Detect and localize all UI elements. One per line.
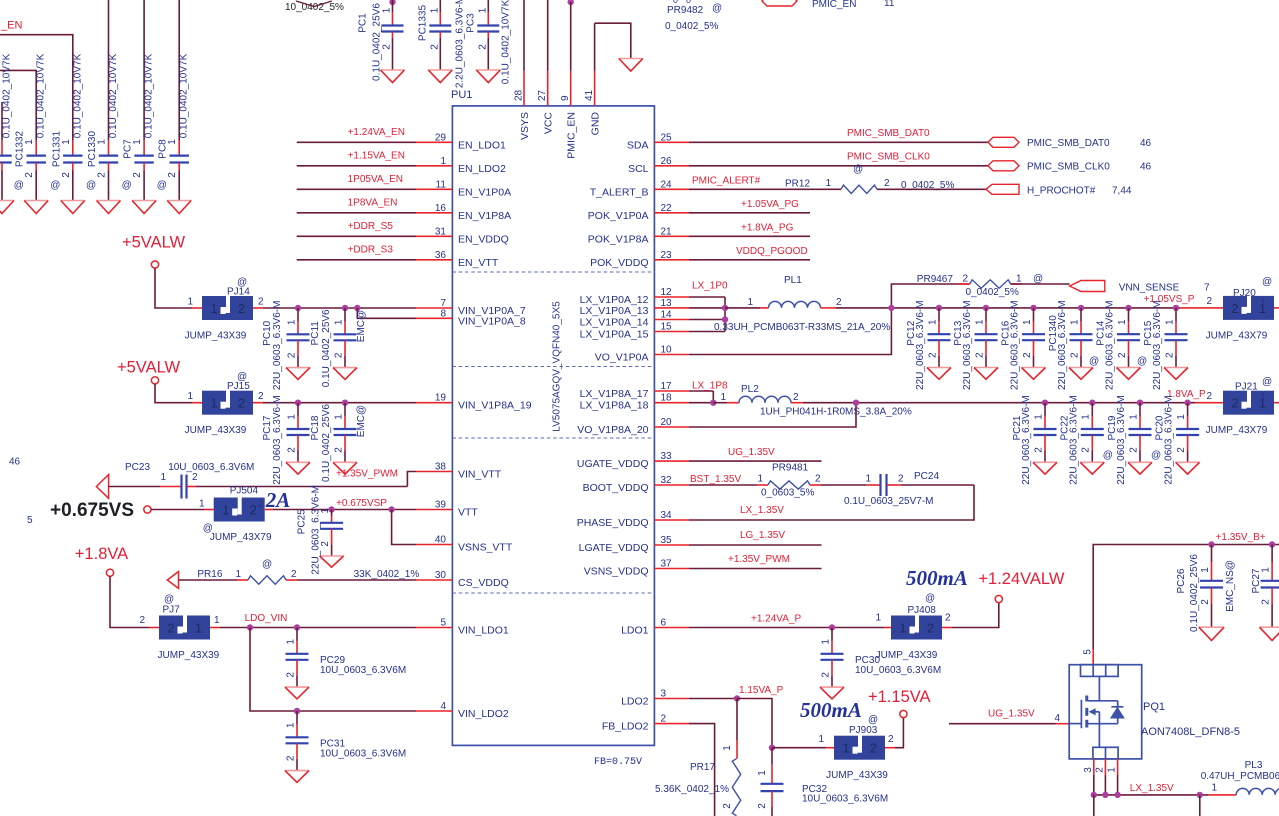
wire net UG_1.35V [689, 447, 822, 461]
jumper PJ408 pin labels [875, 613, 951, 624]
svg-text:PHASE_VDDQ: PHASE_VDDQ [577, 517, 649, 529]
svg-text:VTT: VTT [458, 507, 478, 519]
svg-text:22U_0603_6.3V6-M: 22U_0603_6.3V6-M [1164, 395, 1175, 485]
jumper PJ14 [185, 277, 253, 342]
svg-text:22: 22 [661, 203, 673, 214]
wire to PC1330 [108, 0, 110, 141]
svg-text:VIN_V1P0A_8: VIN_V1P0A_8 [458, 315, 526, 327]
svg-text:LDO_VIN: LDO_VIN [245, 613, 288, 624]
svg-text:1: 1 [974, 319, 985, 325]
svg-text:PMIC_SMB_CLK0: PMIC_SMB_CLK0 [847, 152, 930, 163]
svg-text:PC26: PC26 [1176, 568, 1187, 593]
terminal +1.8VA [106, 569, 113, 576]
wire to PJ504 [151, 509, 214, 511]
svg-text:2: 2 [1260, 599, 1271, 605]
capacitor PC8 [157, 53, 192, 213]
svg-text:PC23: PC23 [125, 462, 150, 473]
svg-text:2: 2 [820, 672, 831, 678]
svg-text:2: 2 [1117, 352, 1128, 358]
svg-text:2A: 2A [265, 488, 291, 512]
svg-text:VSNS_VTT: VSNS_VTT [458, 542, 513, 554]
svg-text:@: @ [237, 277, 247, 288]
wire to PC1332 [0, 70, 36, 140]
pin EN_VDDQ 31 [416, 226, 509, 245]
svg-text:1: 1 [97, 139, 108, 145]
svg-text:7: 7 [1204, 283, 1210, 294]
svg-text:2: 2 [192, 472, 198, 483]
svg-text:1: 1 [1211, 783, 1217, 794]
svg-text:+1.05VA_PG: +1.05VA_PG [741, 199, 799, 210]
svg-text:2: 2 [962, 274, 968, 285]
svg-text:25: 25 [661, 132, 673, 143]
svg-text:LGATE_VDDQ: LGATE_VDDQ [579, 542, 649, 554]
svg-text:2: 2 [382, 44, 393, 50]
svg-text:1: 1 [1069, 319, 1080, 325]
svg-text:1: 1 [1107, 767, 1118, 773]
resistor PR9467 0_0402_5% [891, 274, 1069, 308]
pin VIN_V1P8A_19 19 [416, 393, 532, 412]
svg-text:PR9482: PR9482 [667, 5, 704, 16]
svg-text:16: 16 [435, 203, 447, 214]
pin LX_V1P0A_13 13 [580, 298, 689, 317]
svg-text:31: 31 [435, 226, 447, 237]
svg-text:7,44: 7,44 [1112, 186, 1132, 197]
pin VO_V1P8A_20 20 [577, 417, 689, 436]
svg-text:1: 1 [235, 569, 241, 580]
jumper PJ15 pin labels [187, 391, 264, 402]
svg-text:2: 2 [238, 301, 245, 316]
svg-text:LX_V1P8A_18: LX_V1P8A_18 [580, 400, 649, 412]
port arrow +1.35V_PWM [96, 475, 108, 499]
pin UGATE_VDDQ 33 [577, 451, 689, 470]
wire net LX_1.35V [1091, 783, 1208, 816]
resistor PR9481 0_0603_5% [689, 463, 867, 499]
svg-text:22U_0603_6.3V6-M: 22U_0603_6.3V6-M [1105, 300, 1116, 390]
pin LDO2 3 [621, 689, 689, 708]
svg-text:1: 1 [382, 7, 393, 13]
svg-text:0.1U_0402_25V6: 0.1U_0402_25V6 [321, 404, 332, 482]
svg-text:0.1U_0402_10V7K: 0.1U_0402_10V7K [36, 53, 47, 138]
svg-text:+1.24VALW: +1.24VALW [978, 570, 1064, 588]
capacitor PC27 [1251, 545, 1279, 641]
wire net 1.15VA_P [689, 685, 784, 751]
svg-text:JUMP_43X39: JUMP_43X39 [158, 650, 220, 661]
svg-text:PMIC_SMB_DAT0: PMIC_SMB_DAT0 [847, 128, 930, 139]
svg-text:UG_1.35V: UG_1.35V [728, 447, 775, 458]
svg-text:32: 32 [661, 475, 673, 486]
svg-text:2: 2 [167, 172, 178, 178]
wire net UG_1.35V (to gate) [949, 709, 1069, 724]
IC section dividers [452, 272, 654, 593]
wire to VSNS_VTT [392, 510, 416, 545]
svg-text:1: 1 [187, 297, 193, 308]
svg-text:POK_V1P0A: POK_V1P0A [588, 210, 649, 222]
wire LDO2 to PJ903 [772, 747, 834, 749]
pin PHASE_VDDQ 34 [577, 510, 689, 529]
svg-text:1: 1 [222, 503, 229, 518]
svg-text:1: 1 [875, 613, 881, 624]
wire net PMIC_ALERT# [689, 176, 841, 190]
svg-text:2: 2 [1164, 352, 1175, 358]
svg-text:LX_V1P0A_13: LX_V1P0A_13 [580, 305, 649, 317]
svg-text:@: @ [1089, 356, 1099, 367]
svg-text:33K_0402_1%: 33K_0402_1% [354, 569, 420, 580]
svg-text:PC1331: PC1331 [51, 130, 62, 167]
pin POK_V1P0A 22 [588, 203, 689, 222]
svg-text:2: 2 [167, 621, 174, 636]
capacitor PC12 [906, 300, 951, 390]
svg-text:0.33UH_PCMB063T-R33MS_21A_20%: 0.33UH_PCMB063T-R33MS_21A_20% [714, 322, 890, 333]
svg-text:JUMP_43X39: JUMP_43X39 [185, 425, 247, 436]
wire net LG_1.35V [689, 530, 822, 545]
svg-text:2: 2 [285, 755, 296, 761]
pin BOOT_VDDQ 32 [583, 475, 689, 494]
svg-text:@: @ [50, 180, 60, 191]
svg-text:LX_1P8: LX_1P8 [692, 381, 728, 392]
svg-text:BOOT_VDDQ: BOOT_VDDQ [583, 482, 649, 494]
svg-text:EMC_NS@: EMC_NS@ [1225, 560, 1236, 612]
pin VIN_V1P0A_8 8 [416, 308, 526, 327]
terminal +1.15VA [900, 710, 907, 717]
wire to H_PROCHOT# [877, 188, 986, 190]
capacitor PC31 [285, 711, 406, 782]
svg-text:@: @ [237, 372, 247, 383]
capacitor PC25 [297, 485, 344, 575]
svg-text:20: 20 [661, 417, 673, 428]
svg-text:30: 30 [435, 570, 447, 581]
svg-text:FB_LDO2: FB_LDO2 [602, 721, 649, 733]
svg-text:0.1U_0402_10V7K: 0.1U_0402_10V7K [72, 53, 83, 138]
capacitor PC18 [310, 403, 357, 482]
pin VIN_V1P0A_7 7 [416, 298, 526, 317]
pin LX_V1P0A_14 14 [580, 310, 689, 329]
svg-text:3: 3 [661, 689, 667, 700]
svg-text:39: 39 [435, 500, 447, 511]
svg-text:22U_0603_6.3V6-M: 22U_0603_6.3V6-M [915, 300, 926, 390]
svg-text:2: 2 [1231, 301, 1238, 316]
svg-text:+1.35V_PWM: +1.35V_PWM [336, 469, 398, 480]
svg-text:SCL: SCL [628, 163, 649, 175]
svg-text:0.1U_0402_10V7K: 0.1U_0402_10V7K [2, 53, 13, 138]
svg-text:8: 8 [440, 308, 446, 319]
pin EN_VTT 36 [416, 250, 499, 269]
inductor PL2 1UH [713, 384, 1040, 418]
pin SDA 25 [627, 132, 689, 151]
svg-text:35: 35 [661, 535, 673, 546]
svg-text:PR17: PR17 [690, 762, 715, 773]
pin VSNS_VTT 40 [416, 535, 513, 554]
svg-text:VNN_SENSE: VNN_SENSE [1119, 283, 1180, 294]
wire to +1.15VA [885, 718, 903, 748]
svg-text:PL1: PL1 [784, 275, 802, 286]
svg-text:VSYS: VSYS [519, 112, 531, 140]
svg-text:UG_1.35V: UG_1.35V [988, 709, 1035, 720]
svg-text:@: @ [712, 3, 722, 14]
svg-text:1: 1 [1176, 414, 1187, 420]
svg-text:EN_VTT: EN_VTT [458, 257, 499, 269]
svg-text:+1.8VA_PG: +1.8VA_PG [741, 223, 794, 234]
svg-text:EMC@: EMC@ [356, 310, 367, 342]
svg-text:2: 2 [61, 172, 72, 178]
svg-text:PC25: PC25 [297, 509, 308, 534]
svg-text:10U_0603_6.3V6M: 10U_0603_6.3V6M [320, 748, 406, 759]
svg-text:2: 2 [250, 503, 257, 518]
wire net +DDR_S5 [297, 221, 416, 237]
svg-text:@: @ [164, 594, 174, 605]
capacitor PC1 [389, 0, 395, 5]
svg-text:PMIC_EN: PMIC_EN [812, 0, 856, 10]
svg-text:28: 28 [514, 89, 525, 101]
pin VIN_LDO2 4 [416, 701, 509, 720]
svg-text:1: 1 [1081, 414, 1092, 420]
svg-text:+1.8VA: +1.8VA [75, 545, 128, 563]
pin CS_VDDQ 30 [416, 570, 509, 589]
svg-text:PC1335: PC1335 [417, 4, 428, 41]
svg-text:JUMP_43X39: JUMP_43X39 [876, 650, 938, 661]
svg-text:LX_V1P0A_15: LX_V1P0A_15 [580, 329, 649, 341]
svg-text:22U_0603_6.3V6-M: 22U_0603_6.3V6-M [272, 395, 283, 485]
capacitor PC7 [122, 53, 157, 213]
capacitor PC32 [757, 748, 888, 816]
svg-text:2: 2 [24, 172, 35, 178]
jumper PJ408 [876, 593, 942, 661]
svg-text:@: @ [157, 180, 167, 191]
svg-text:PL2: PL2 [741, 384, 759, 395]
pin VIN_LDO1 5 [416, 618, 509, 637]
jumper PJ14 pin labels [187, 297, 264, 308]
svg-text:+1.35V_B+: +1.35V_B+ [1216, 532, 1266, 543]
connector VNN_SENSE [1070, 281, 1210, 294]
pin FB_LDO2 2 [602, 714, 689, 733]
svg-text:1P05VA_EN: 1P05VA_EN [348, 174, 403, 185]
svg-text:10U_0603_6.3V6M: 10U_0603_6.3V6M [855, 665, 941, 676]
svg-text:0.1U_0402_10V7K: 0.1U_0402_10V7K [144, 53, 155, 138]
svg-text:PC27: PC27 [1251, 568, 1262, 593]
svg-text:0.1U_0402_25V6: 0.1U_0402_25V6 [1189, 554, 1200, 632]
svg-text:+1.35V_PWM: +1.35V_PWM [728, 554, 790, 565]
svg-text:22U_0603_6.3V6-M: 22U_0603_6.3V6-M [1010, 300, 1021, 390]
svg-text:UGATE_VDDQ: UGATE_VDDQ [577, 458, 649, 470]
svg-text:+0.675VSP: +0.675VSP [336, 498, 387, 509]
svg-text:17: 17 [661, 381, 673, 392]
svg-text:1: 1 [1164, 319, 1175, 325]
capacitor PC1330 [86, 53, 121, 213]
svg-text:10U_0603_6.3V6M: 10U_0603_6.3V6M [320, 665, 406, 676]
connector PMIC_SMB_DAT0 [988, 137, 1152, 149]
jumper PJ504 pin labels + @ [199, 499, 264, 511]
svg-text:@: @ [14, 180, 24, 191]
svg-text:2: 2 [974, 352, 985, 358]
pin LX_V1P8A_17 17 [580, 381, 689, 400]
wire branch to VIN_LDO2 [250, 628, 416, 715]
svg-text:41: 41 [584, 89, 595, 101]
wire net VDDQ_PGOOD [689, 246, 810, 260]
svg-text:PC11: PC11 [310, 321, 321, 346]
svg-text:PC18: PC18 [310, 415, 321, 440]
wire to PC7 [143, 0, 145, 141]
jumper PJ903 pin labels [818, 734, 894, 745]
svg-text:40: 40 [435, 535, 447, 546]
capacitor PC3 [465, 0, 511, 84]
wire net +1.8VA_PG [689, 223, 810, 237]
pin VCC 27 [537, 0, 554, 134]
pin LX_V1P0A_12 12 [580, 287, 689, 306]
svg-text:1: 1 [167, 139, 178, 145]
wire _EN to PC1331 [0, 35, 73, 141]
capacitor PC1335 [417, 0, 465, 88]
svg-text:1: 1 [899, 621, 906, 636]
svg-text:5: 5 [1083, 649, 1094, 655]
pin SCL 26 [628, 156, 689, 175]
svg-text:1: 1 [210, 396, 217, 411]
svg-text:37: 37 [661, 559, 673, 570]
wire LX_V1P8A bus [689, 381, 728, 406]
svg-text:@: @ [868, 715, 878, 726]
jumper PJ21 [1206, 377, 1274, 437]
svg-text:1UH_PH041H-1R0MS_3.8A_20%: 1UH_PH041H-1R0MS_3.8A_20% [760, 407, 912, 418]
svg-text:LG_1.35V: LG_1.35V [740, 530, 785, 541]
svg-text:2: 2 [1081, 447, 1092, 453]
PQ1 source pins 3 2 1 [1083, 759, 1118, 795]
wire to PC8 [178, 0, 180, 141]
svg-text:1: 1 [285, 722, 296, 728]
svg-text:VIN_VTT: VIN_VTT [458, 469, 502, 481]
terminal +0.675VS [144, 506, 151, 513]
svg-text:PJ14: PJ14 [227, 287, 250, 298]
svg-text:34: 34 [661, 510, 673, 521]
svg-text:2: 2 [757, 803, 768, 809]
pin LX_V1P8A_18 18 [580, 393, 689, 412]
capacitor PC21 [1012, 395, 1057, 485]
svg-text:1: 1 [160, 472, 166, 483]
capacitor PC30 [820, 628, 941, 699]
svg-text:2.2U_0603_6.3V6-M: 2.2U_0603_6.3V6-M [454, 0, 465, 88]
wire BOOT to LX_1.35V [689, 485, 974, 520]
svg-text:3: 3 [1083, 767, 1094, 773]
svg-text:1: 1 [825, 178, 831, 189]
svg-text:1: 1 [1128, 414, 1139, 420]
svg-text:@: @ [1033, 274, 1043, 285]
svg-text:PJ15: PJ15 [227, 381, 250, 392]
svg-text:JUMP_43X79: JUMP_43X79 [1206, 330, 1268, 341]
svg-text:1: 1 [865, 474, 871, 485]
capacitor PC17 [262, 395, 310, 485]
resistor PR16 33K_0402_1% [179, 559, 420, 584]
svg-text:VO_V1P8A_20: VO_V1P8A_20 [577, 424, 648, 436]
svg-text:@: @ [86, 180, 96, 191]
svg-text:2: 2 [1206, 296, 1212, 307]
svg-text:+5VALW: +5VALW [117, 359, 181, 377]
terminal +1.24VALW [995, 595, 1002, 602]
wire FB_LDO2 [689, 724, 715, 816]
pin T_ALERT_B 24 [590, 179, 689, 198]
svg-text:1: 1 [429, 7, 440, 13]
svg-text:PR9467: PR9467 [917, 274, 954, 285]
capacitor PC14 [1096, 300, 1141, 390]
capacitor PC22 [1059, 395, 1104, 485]
wire +5VALW to PJ15 [155, 384, 202, 403]
capacitor PC23 (series) [109, 462, 408, 499]
pin VSNS_VDDQ 37 [584, 559, 689, 578]
svg-text:2: 2 [1095, 767, 1106, 773]
svg-text:LX_V1P8A_17: LX_V1P8A_17 [580, 388, 649, 400]
svg-text:15: 15 [661, 322, 673, 333]
capacitor PC19 [1107, 395, 1152, 485]
svg-text:+DDR_S3: +DDR_S3 [348, 244, 394, 255]
wire +5VALW to PJ14 [155, 268, 202, 308]
svg-text:27: 27 [537, 89, 548, 101]
svg-text:26: 26 [661, 156, 673, 167]
svg-text:JUMP_43X39: JUMP_43X39 [185, 331, 247, 342]
transistor PQ1 AON7408L [1069, 665, 1240, 759]
connector PMIC_EN (top, cut) [762, 0, 895, 10]
svg-text:+1.24VA_P: +1.24VA_P [751, 614, 801, 625]
svg-text:1: 1 [757, 770, 768, 776]
svg-text:SDA: SDA [627, 139, 649, 151]
jumper PJ20 [1206, 276, 1274, 341]
capacitor PC15 [1143, 300, 1188, 390]
svg-text:LX_1.35V: LX_1.35V [1130, 783, 1174, 794]
svg-text:PJ20: PJ20 [1233, 288, 1256, 299]
inductor PL1 0.33UH [714, 275, 891, 333]
PJ21 pin labels [1206, 391, 1279, 403]
wire +1.8VA to PJ7 [110, 576, 159, 627]
svg-text:22U_0603_6.3V6-M: 22U_0603_6.3V6-M [962, 300, 973, 390]
capacitor PC10 [262, 301, 310, 391]
svg-text:PC3: PC3 [465, 13, 476, 33]
svg-text:4: 4 [440, 701, 446, 712]
svg-text:EN_V1P0A: EN_V1P0A [458, 186, 511, 198]
svg-text:1: 1 [24, 139, 35, 145]
svg-text:2: 2 [1128, 447, 1139, 453]
svg-text:2: 2 [1200, 599, 1211, 605]
svg-text:2: 2 [1033, 447, 1044, 453]
svg-text:1: 1 [1260, 567, 1271, 573]
pin EN_LDO2 1 [416, 156, 506, 175]
svg-text:1: 1 [286, 414, 297, 420]
capacitor PC29 [285, 628, 406, 699]
capacitor PC20 [1155, 395, 1200, 485]
svg-text:22U_0603_6.3V6-M: 22U_0603_6.3V6-M [1057, 300, 1068, 390]
svg-text:0_0402_5%: 0_0402_5% [966, 287, 1019, 298]
wire rail 1.8VA_P [1040, 389, 1223, 406]
svg-text:LDO2: LDO2 [621, 696, 649, 708]
svg-text:36: 36 [435, 250, 447, 261]
svg-text:22U_0603_6.3V6-M: 22U_0603_6.3V6-M [1021, 395, 1032, 485]
svg-text:1: 1 [1260, 392, 1266, 403]
svg-text:22U_0603_6.3V6-M: 22U_0603_6.3V6-M [272, 301, 283, 391]
wire rail +1.35V_B+ [1093, 532, 1279, 649]
svg-text:10U_0603_6.3V6M: 10U_0603_6.3V6M [168, 462, 254, 473]
svg-text:1: 1 [927, 319, 938, 325]
svg-text:2: 2 [286, 447, 297, 453]
svg-text:JUMP_43X39: JUMP_43X39 [826, 770, 888, 781]
svg-text:1: 1 [818, 734, 824, 745]
svg-text:11: 11 [436, 179, 447, 190]
svg-text:GND: GND [590, 112, 602, 136]
svg-text:19: 19 [435, 393, 447, 404]
svg-text:2: 2 [258, 297, 264, 308]
svg-text:EN_LDO2: EN_LDO2 [458, 163, 506, 175]
svg-text:1: 1 [285, 639, 296, 645]
svg-text:10U_0603_6.3V6M: 10U_0603_6.3V6M [802, 794, 888, 805]
capacitor PC24 (series) [844, 471, 974, 507]
capacitor PC13 [953, 300, 998, 390]
svg-text:1: 1 [720, 392, 726, 403]
jumper PJ7 pin labels [139, 615, 220, 626]
svg-text:2: 2 [836, 297, 842, 308]
svg-text:22U_0603_6.3V6-M: 22U_0603_6.3V6-M [1116, 395, 1127, 485]
